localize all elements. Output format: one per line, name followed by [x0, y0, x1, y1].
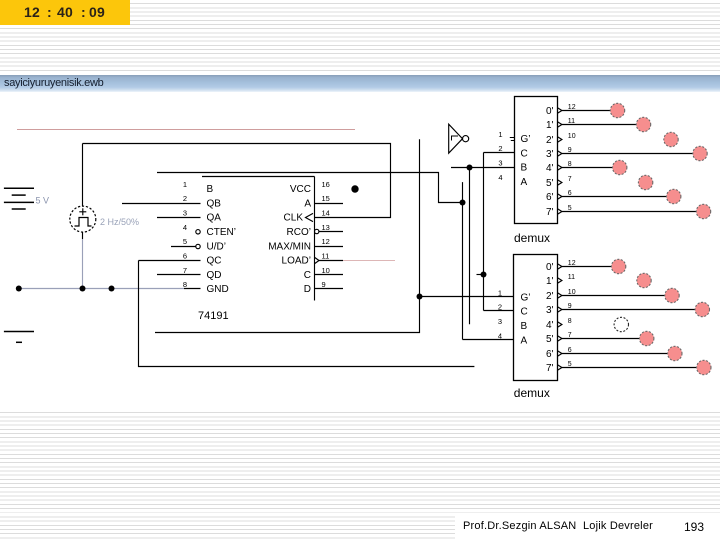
svg-text:0': 0': [546, 262, 554, 273]
svg-text:8: 8: [183, 280, 187, 289]
svg-text:U/D’: U/D’: [207, 241, 226, 252]
svg-text:1': 1': [546, 276, 554, 287]
svg-text:6: 6: [568, 347, 572, 354]
svg-text:4': 4': [546, 320, 554, 331]
svg-text:7: 7: [568, 176, 572, 183]
svg-text:3': 3': [546, 149, 554, 160]
svg-text:12: 12: [568, 260, 576, 267]
svg-text:QD: QD: [207, 270, 222, 281]
svg-text:1: 1: [183, 180, 187, 189]
svg-text:7': 7': [546, 363, 554, 374]
svg-text:5: 5: [183, 237, 187, 246]
svg-text:4: 4: [183, 223, 187, 232]
svg-text:10: 10: [568, 289, 576, 296]
svg-text:4': 4': [546, 163, 554, 174]
svg-text:14: 14: [322, 209, 330, 218]
svg-text:2: 2: [183, 194, 187, 203]
svg-text:LOAD’: LOAD’: [282, 256, 311, 267]
svg-text:1: 1: [498, 288, 502, 297]
svg-text:1: 1: [498, 130, 502, 139]
svg-text:7: 7: [183, 266, 187, 275]
svg-text:6: 6: [183, 251, 187, 260]
svg-text:12: 12: [322, 237, 330, 246]
svg-text:G’: G’: [521, 134, 531, 145]
svg-text:2': 2': [546, 291, 554, 302]
svg-text:0': 0': [546, 106, 554, 117]
svg-text:10: 10: [322, 266, 330, 275]
svg-text:3: 3: [498, 159, 502, 168]
svg-text:RCO’: RCO’: [287, 227, 311, 238]
svg-text:7': 7': [546, 207, 554, 218]
svg-text:2 Hz/50%: 2 Hz/50%: [100, 217, 139, 227]
svg-text:11: 11: [568, 118, 575, 125]
svg-text:QB: QB: [207, 198, 222, 209]
svg-text:5: 5: [568, 205, 572, 212]
svg-text:C: C: [521, 307, 528, 318]
svg-text:QC: QC: [207, 256, 222, 267]
svg-text:1': 1': [546, 120, 554, 131]
svg-text:3': 3': [546, 305, 554, 316]
svg-text:2': 2': [546, 135, 554, 146]
svg-text:3: 3: [183, 209, 187, 218]
svg-text:B: B: [207, 184, 214, 195]
svg-text:5': 5': [546, 334, 554, 345]
svg-text:11: 11: [568, 274, 575, 281]
svg-text:A: A: [521, 335, 528, 346]
svg-text:6': 6': [546, 192, 554, 203]
svg-text:9: 9: [322, 280, 326, 289]
svg-text:C: C: [521, 148, 528, 159]
svg-text:2: 2: [498, 144, 502, 153]
svg-text:8: 8: [568, 161, 572, 168]
svg-text:3: 3: [498, 317, 502, 326]
svg-text:CTEN’: CTEN’: [207, 227, 236, 238]
svg-text:C: C: [304, 270, 311, 281]
svg-text:9: 9: [568, 303, 572, 310]
svg-text:8: 8: [568, 318, 572, 325]
svg-text:2: 2: [498, 303, 502, 312]
svg-text:A: A: [521, 177, 528, 188]
svg-text:5': 5': [546, 178, 554, 189]
svg-text:6: 6: [568, 190, 572, 197]
svg-text:QA: QA: [207, 213, 222, 224]
svg-text:demux: demux: [514, 231, 550, 245]
svg-text:9: 9: [568, 147, 572, 154]
svg-text:74191: 74191: [198, 310, 229, 322]
svg-text:D: D: [304, 284, 311, 295]
svg-text:4: 4: [498, 331, 502, 340]
svg-text:G’: G’: [521, 292, 531, 303]
svg-text:B: B: [521, 321, 528, 332]
svg-text:MAX/MIN: MAX/MIN: [268, 241, 311, 252]
svg-text:B: B: [521, 163, 528, 174]
svg-text:6': 6': [546, 349, 554, 360]
svg-text:7: 7: [568, 332, 572, 339]
svg-text:13: 13: [322, 223, 330, 232]
svg-text:A: A: [304, 198, 311, 209]
svg-text:demux: demux: [514, 386, 550, 400]
svg-text:12: 12: [568, 104, 576, 111]
svg-text:GND: GND: [207, 284, 229, 295]
svg-text:5 V: 5 V: [36, 196, 50, 206]
svg-text:VCC: VCC: [290, 184, 311, 195]
svg-text:15: 15: [322, 194, 330, 203]
svg-text:11: 11: [322, 251, 330, 260]
svg-text:5: 5: [568, 361, 572, 368]
svg-text:CLK: CLK: [284, 213, 304, 224]
svg-text:10: 10: [568, 133, 576, 140]
svg-text:4: 4: [498, 173, 502, 182]
svg-text:16: 16: [322, 180, 330, 189]
